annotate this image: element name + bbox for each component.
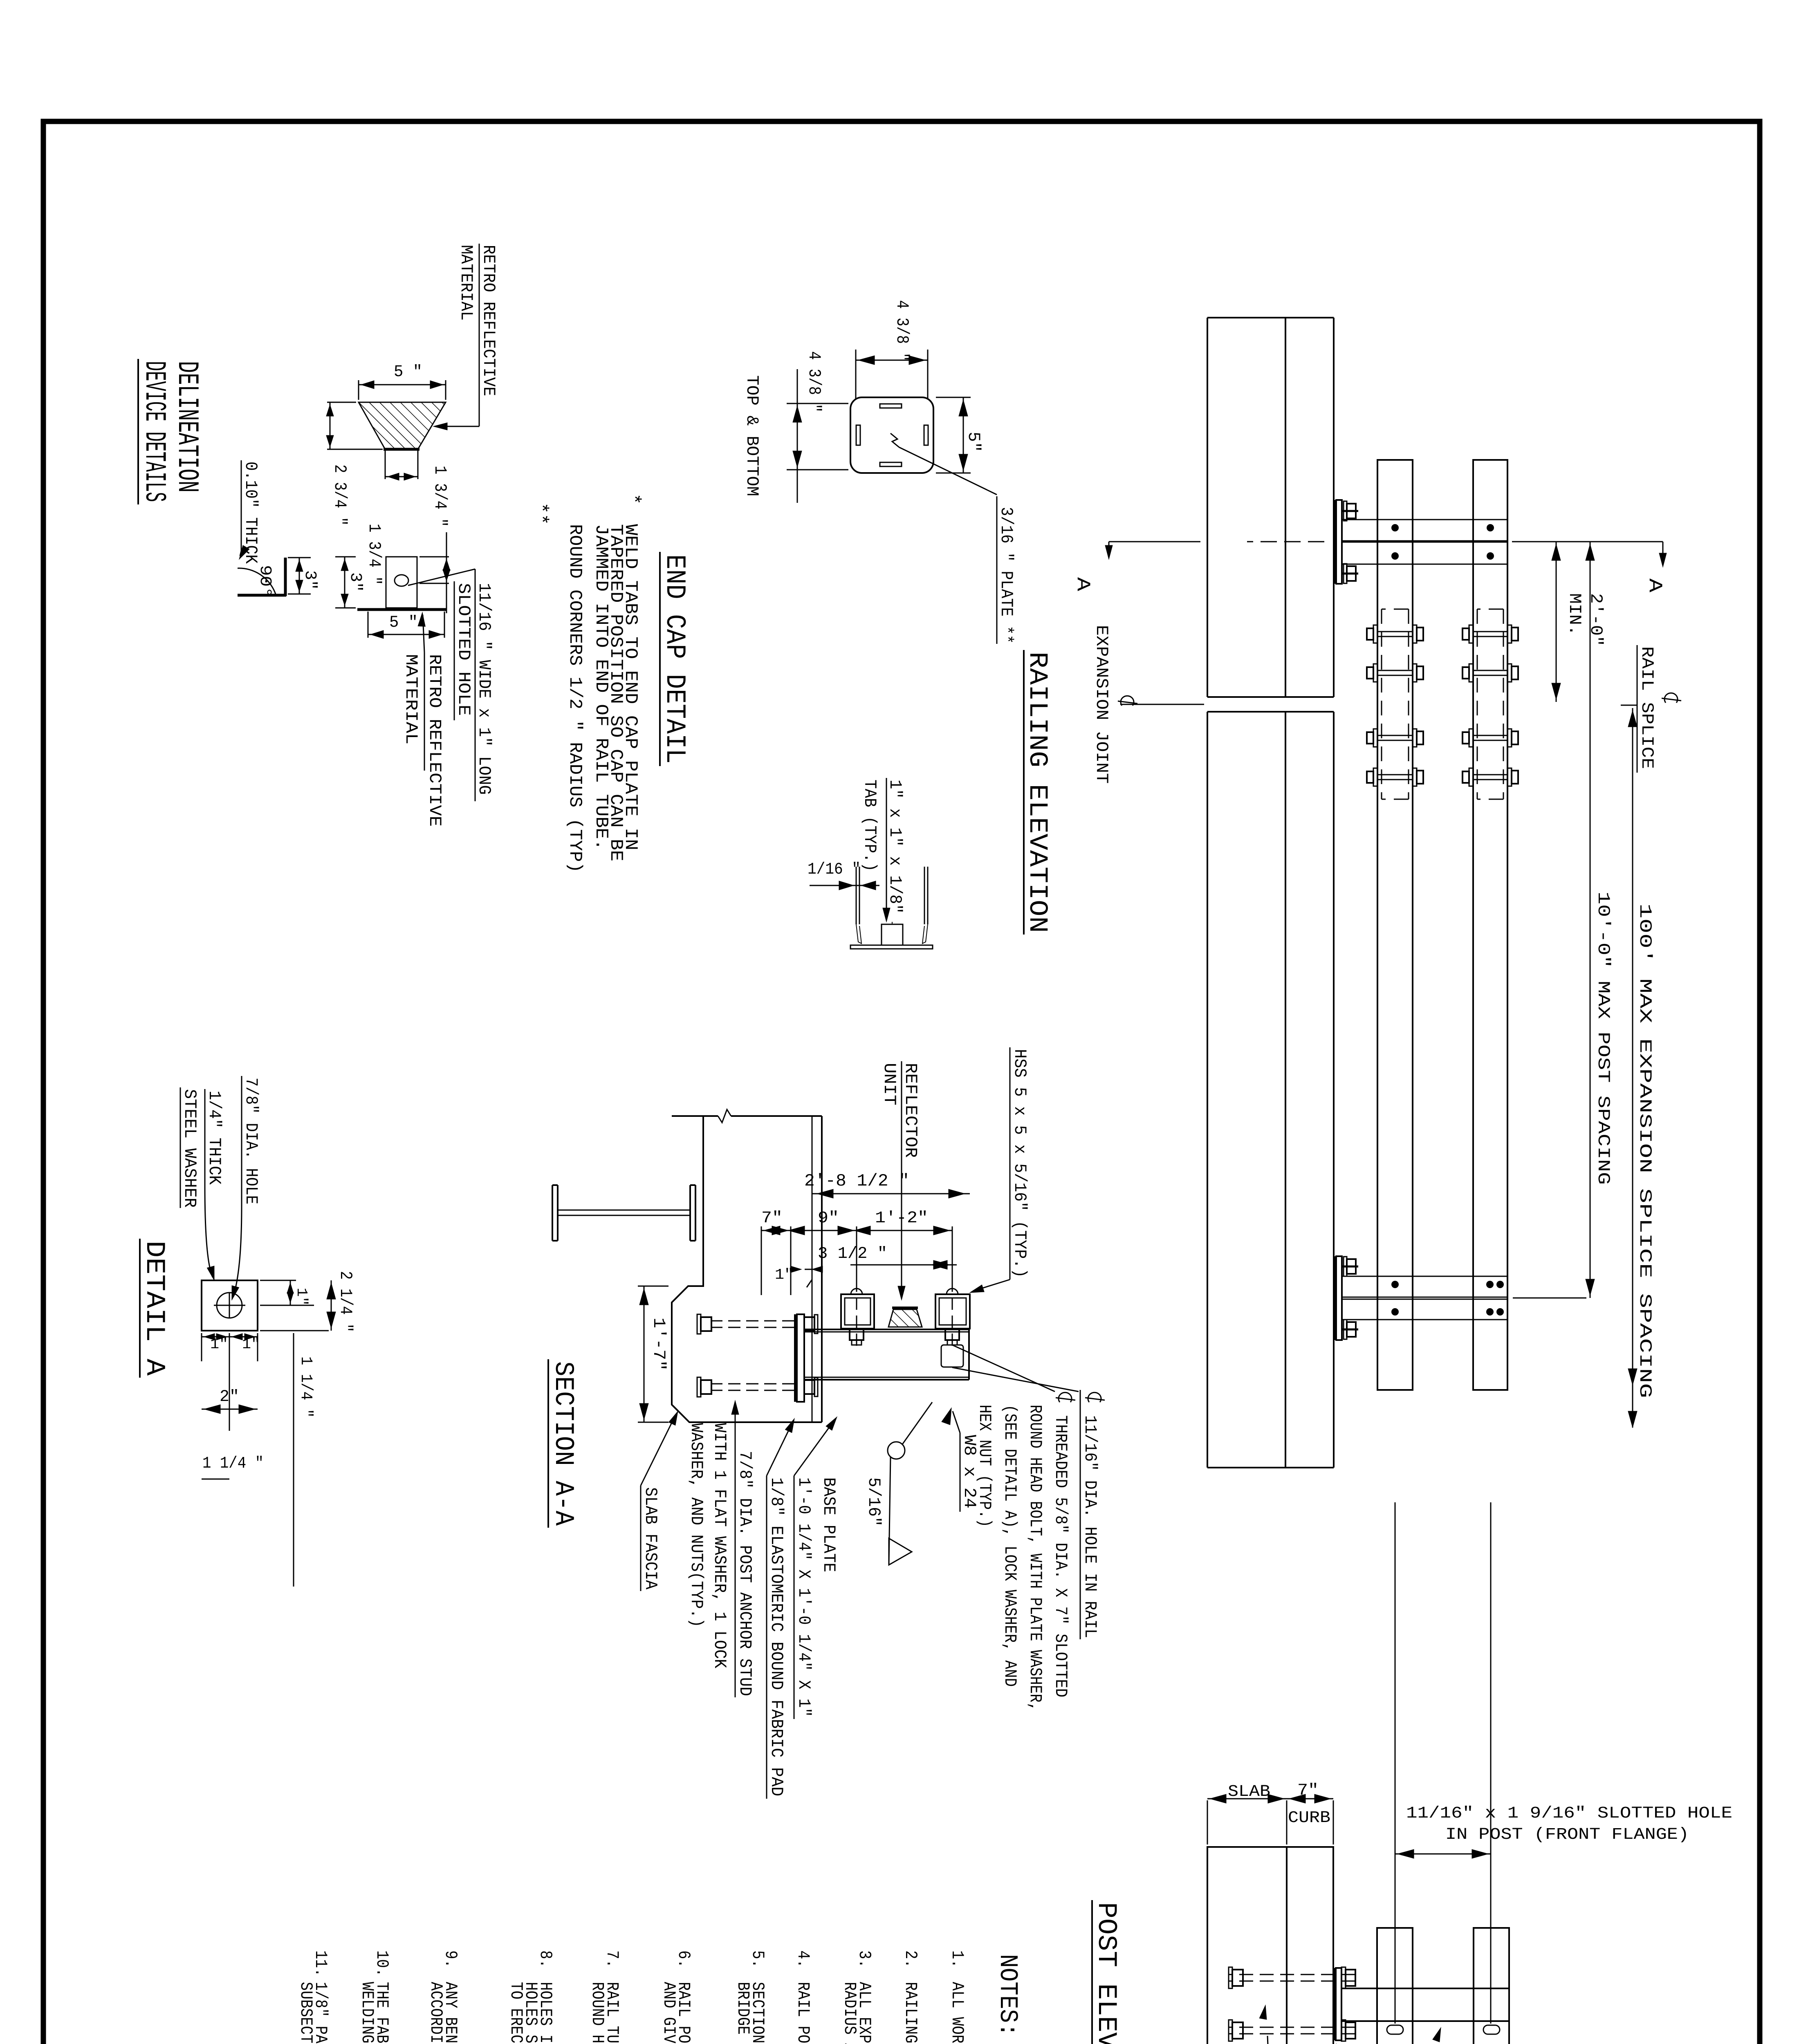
- svg-text:SLAB FASCIA: SLAB FASCIA: [641, 1487, 660, 1590]
- tab detail rail tube walls: [856, 867, 928, 944]
- svg-text:9": 9": [818, 1209, 839, 1228]
- svg-text:3": 3": [301, 570, 319, 590]
- svg-text:AND GIVEN AN ADDITIONAL ONE-EI: AND GIVEN AN ADDITIONAL ONE-EIGHTH TURN.: [659, 1982, 679, 2044]
- svg-text:END CAP DETAIL: END CAP DETAIL: [659, 554, 690, 764]
- svg-text:SLAB: SLAB: [1228, 1783, 1270, 1801]
- svg-text:7": 7": [1297, 1782, 1319, 1800]
- svg-text:1 3/4 ": 1 3/4 ": [430, 466, 450, 527]
- svg-text:1": 1": [210, 1336, 228, 1353]
- svg-text:UNIT: UNIT: [879, 1063, 899, 1105]
- post P2 base plate: [1335, 1256, 1342, 1340]
- svg-text:MATERIAL: MATERIAL: [401, 654, 421, 744]
- dimension 1'-7" fascia: [638, 1286, 668, 1422]
- svg-text:IN POST (FRONT FLANGE): IN POST (FRONT FLANGE): [1445, 1826, 1689, 1844]
- field weld symbol 5/16: [864, 1402, 932, 1565]
- delineator 5 inch dim: [359, 363, 446, 400]
- svg-text:2'-8 1/2 ": 2'-8 1/2 ": [804, 1171, 909, 1191]
- delineation sheet title: [137, 359, 204, 504]
- svg-text:90°: 90°: [256, 565, 274, 598]
- dimension 100' max expansion splice spacing: [1628, 708, 1655, 1428]
- end cap title: [659, 552, 690, 766]
- post P2: [1342, 1276, 1507, 1320]
- svg-text:THREADED 5/8" DIA. X 7" SLOTTE: THREADED 5/8" DIA. X 7" SLOTTED: [1051, 1415, 1070, 1697]
- notes title: [993, 1954, 1022, 2037]
- detail A dim 2-1/4 top: [260, 1271, 355, 1332]
- svg-text:7": 7": [761, 1209, 783, 1228]
- svg-text:ROUND HEAD BOLT, WITH PLATE WA: ROUND HEAD BOLT, WITH PLATE WASHER,: [1025, 1405, 1045, 1711]
- plan view 1-3/4 dim: [364, 524, 450, 613]
- section dimension 1 inch lip: [775, 1266, 823, 1287]
- dimension 2'-0" MIN: [1552, 542, 1606, 702]
- svg-text:WELDING PROCEDURES IN ACCORDAN: WELDING PROCEDURES IN ACCORDANCE WITH SE…: [357, 1982, 377, 2044]
- railing elevation title: [1022, 650, 1052, 935]
- post elevation post: [1341, 1988, 1509, 2021]
- svg-text:3.: 3.: [855, 1950, 874, 1968]
- svg-text:4 3/8 ": 4 3/8 ": [892, 300, 912, 361]
- dimension 10'-0" max post spacing: [1513, 542, 1613, 1298]
- svg-text:A: A: [1072, 577, 1093, 591]
- svg-text:HSS 5 x 5 x 5/16" (TYP.): HSS 5 x 5 x 5/16" (TYP.): [1010, 1049, 1030, 1278]
- svg-text:1": 1": [293, 1288, 310, 1306]
- svg-text:RAILING ELEVATION: RAILING ELEVATION: [1022, 652, 1052, 933]
- retro reflective material label 2: [401, 612, 444, 827]
- svg-text:BASE PLATE: BASE PLATE: [819, 1477, 839, 1572]
- section dimension 2-8 1/2 total: [804, 1171, 970, 1198]
- splice bolts upper rail: [1463, 625, 1518, 786]
- section cut line A-A: [1072, 542, 1667, 592]
- post elevation slab: [1207, 1847, 1333, 2044]
- svg-text:JAMMED INTO END OF RAIL TUBE.: JAMMED INTO END OF RAIL TUBE.: [591, 524, 611, 850]
- end cap dim 4-3/8 horizontal: [787, 351, 848, 503]
- svg-text:DETAIL A: DETAIL A: [139, 1241, 170, 1376]
- post P1: [1342, 520, 1507, 564]
- detail A dim 2 right: [202, 1388, 258, 1414]
- svg-text:4 3/8 ": 4 3/8 ": [804, 351, 824, 412]
- svg-text:10.: 10.: [372, 1950, 392, 1977]
- svg-text:*: *: [622, 493, 644, 505]
- svg-text:RAILING MATERIAL SHALL MEET TH: RAILING MATERIAL SHALL MEET THE REQUIREM…: [901, 1982, 920, 2044]
- svg-text:7.: 7.: [602, 1950, 622, 1968]
- rail tube lower: [1377, 460, 1413, 1390]
- svg-text:TAB (TYP.) *: TAB (TYP.) *: [860, 780, 879, 890]
- svg-text:MATERIAL: MATERIAL: [456, 245, 476, 320]
- plan view 3 inch dim: [335, 557, 364, 608]
- svg-text:1'-7": 1'-7": [649, 1318, 668, 1371]
- detail A dim 1 top: [260, 1280, 314, 1306]
- post P1 anchor bolts: [1342, 501, 1358, 583]
- svg-text:3 1/2 ": 3 1/2 ": [818, 1245, 887, 1263]
- svg-text:SUBSECTION 731.01 OR 731.02.: SUBSECTION 731.01 OR 731.02.: [296, 1982, 316, 2044]
- delineator plan view: [357, 557, 447, 610]
- svg-text:8.: 8.: [536, 1950, 555, 1968]
- delineator 1-3/4 dim: [385, 449, 450, 527]
- svg-text:5/16": 5/16": [864, 1477, 884, 1526]
- post elevation rails: [1377, 1928, 1509, 2044]
- section A-A title: [548, 1359, 579, 1528]
- tab detail 1/16 dim: [808, 861, 879, 890]
- svg-text:RADIUS AND BE FREE OF BURRS.: RADIUS AND BE FREE OF BURRS.: [840, 1982, 859, 2044]
- svg-text:ACCORDING TO A PROCEDURE PROVI: ACCORDING TO A PROCEDURE PROVIDED BY THE…: [426, 1982, 446, 2044]
- post elevation slotted holes: [1387, 2025, 1500, 2044]
- svg-text:5 ": 5 ": [394, 363, 422, 381]
- rail splice sleeve lower (dashed): [1382, 609, 1409, 799]
- svg-text:RAIL POSTS SHALL BE SET NORMAL: RAIL POSTS SHALL BE SET NORMAL TO GRADE.: [793, 1982, 813, 2044]
- section reflector unit: [888, 1308, 922, 1327]
- section plate washer upper bolt: [941, 1345, 963, 1367]
- retro reflective material label 1: [433, 244, 498, 430]
- svg-text:11/16" x 1 9/16" SLOTTED HOLE: 11/16" x 1 9/16" SLOTTED HOLE: [1406, 1804, 1732, 1823]
- bolt hole labels section: [952, 1345, 1105, 1711]
- railing elevation slab section 1: [1207, 318, 1334, 697]
- post P2 anchor bolts: [1342, 1257, 1358, 1339]
- post P1 base plate: [1335, 500, 1342, 584]
- base plate label section: [794, 1417, 839, 1719]
- svg-text:RETRO REFLECTIVE: RETRO REFLECTIVE: [425, 654, 444, 827]
- slotted hole label: [1406, 1804, 1732, 1844]
- section base plate and pad: [795, 1314, 804, 1402]
- svg-text:**: **: [530, 502, 551, 525]
- svg-text:2'-0": 2'-0": [1586, 593, 1606, 646]
- post elevation labels right: [1244, 2005, 1521, 2044]
- svg-text:1/4" THICK: 1/4" THICK: [204, 1091, 224, 1185]
- svg-text:5": 5": [964, 432, 983, 452]
- svg-text:TO ERECTION.: TO ERECTION.: [506, 1982, 526, 2044]
- section anchor studs: [697, 1314, 794, 1397]
- svg-text:DEVICE DETAILS: DEVICE DETAILS: [137, 361, 171, 502]
- svg-text:WITH 1 FLAT WASHER, 1 LOCK: WITH 1 FLAT WASHER, 1 LOCK: [710, 1423, 729, 1669]
- post P2 rail bolts: [1391, 1281, 1504, 1316]
- section deck slab: [672, 1109, 822, 1422]
- svg-text:1/8" ELASTOMERIC BOUND FABRIC: 1/8" ELASTOMERIC BOUND FABRIC PAD: [767, 1477, 786, 1796]
- svg-text:4.: 4.: [793, 1950, 813, 1968]
- svg-text:1/16 ": 1/16 ": [808, 861, 861, 879]
- section post W8x24: [804, 1329, 969, 1380]
- section I-beam girder: [552, 1185, 695, 1241]
- svg-text:5.: 5.: [748, 1950, 767, 1968]
- svg-text:1 1/4 ": 1 1/4 ": [296, 1356, 315, 1418]
- section rail bolts: [850, 1280, 959, 1346]
- anchor stud label section: [686, 1401, 755, 1697]
- svg-text:5 ": 5 ": [389, 614, 418, 632]
- section dimension 3 1/2: [818, 1245, 957, 1269]
- svg-text:REFLECTOR: REFLECTOR: [901, 1063, 920, 1158]
- end cap dim 4-3/8 vertical: [856, 300, 928, 399]
- svg-text:2 3/4 ": 2 3/4 ": [330, 464, 350, 526]
- detail A washer: [202, 1280, 258, 1331]
- svg-text:RETRO REFLECTIVE: RETRO REFLECTIVE: [479, 245, 498, 396]
- svg-text:10'-0" MAX POST SPACING: 10'-0" MAX POST SPACING: [1593, 892, 1613, 1185]
- svg-text:1 1/4 ": 1 1/4 ": [202, 1455, 264, 1473]
- svg-text:2": 2": [220, 1388, 239, 1406]
- svg-text:2.: 2.: [901, 1950, 920, 1968]
- notes list: [296, 1950, 967, 2044]
- svg-text:STEEL WASHER: STEEL WASHER: [180, 1089, 200, 1208]
- svg-text:1'-0 1/4" X 1'-0 1/4" X 1": 1'-0 1/4" X 1'-0 1/4" X 1": [794, 1477, 814, 1717]
- end cap notes: [530, 493, 644, 873]
- svg-text:(SEE DETAIL A), LOCK WASHER, A: (SEE DETAIL A), LOCK WASHER, AND: [1000, 1405, 1020, 1687]
- svg-text:2 1/4 ": 2 1/4 ": [336, 1271, 355, 1332]
- post elevation title: [1091, 1900, 1122, 2044]
- tab label: [860, 778, 905, 922]
- side view 3 inch dim: [288, 558, 319, 594]
- svg-text:ROUND HEAD BOLTS INSERTED THRO: ROUND HEAD BOLTS INSERTED THROUGH THE FA…: [588, 1982, 607, 2044]
- plan view 5 inch dim: [368, 612, 444, 639]
- svg-text:SLOTTED HOLE: SLOTTED HOLE: [454, 583, 473, 716]
- delineator front view trapezoid: [359, 402, 446, 449]
- svg-text:11/16 " WIDE x 1" LONG: 11/16 " WIDE x 1" LONG: [474, 583, 494, 795]
- rail tube upper: [1473, 460, 1507, 1390]
- svg-text:1.: 1.: [947, 1950, 967, 1968]
- svg-text:RAIL SPLICE: RAIL SPLICE: [1637, 646, 1657, 769]
- post elevation anchor studs: [1229, 1967, 1355, 2041]
- svg-text:1": 1": [242, 1336, 260, 1353]
- reflector unit label: [879, 1061, 920, 1300]
- splice bolts lower rail: [1367, 625, 1423, 786]
- railing elevation slab section 2: [1207, 712, 1334, 1468]
- svg-text:DELINEATION: DELINEATION: [170, 361, 204, 493]
- svg-text:100' MAX EXPANSION SPLICE SPA: 100' MAX EXPANSION SPLICE SPACING: [1635, 903, 1655, 1398]
- rail splice sleeve upper (dashed): [1477, 609, 1503, 799]
- section rail tubes: [841, 1294, 970, 1329]
- slab fascia label: [641, 1411, 678, 1591]
- slotted hole label delineator: [408, 569, 494, 801]
- expansion joint leader and label: [1092, 625, 1204, 784]
- detail A dim 1 1 right: [202, 1333, 260, 1431]
- svg-text:9.: 9.: [441, 1950, 460, 1968]
- hss label section: [970, 1047, 1030, 1293]
- svg-text:1": 1": [775, 1266, 794, 1283]
- end cap leader squiggle: [891, 433, 997, 495]
- svg-text:ROUND CORNERS 1/2 " RADIUS (TY: ROUND CORNERS 1/2 " RADIUS (TYP): [565, 524, 585, 873]
- svg-text:ALL WORK AND MATERIALS SHALL C: ALL WORK AND MATERIALS SHALL CONFORM TO …: [947, 1982, 967, 2044]
- section fascia block: [672, 1185, 822, 1422]
- end cap plate face: [850, 397, 933, 473]
- svg-text:7/8" DIA. POST ANCHOR STUD: 7/8" DIA. POST ANCHOR STUD: [735, 1451, 755, 1696]
- section chain dimension 7 9 1-2: [761, 1209, 952, 1295]
- delineator side view L: [238, 558, 286, 598]
- svg-text:EXPANSION JOINT: EXPANSION JOINT: [1092, 625, 1111, 784]
- delineator 2-3/4 dim: [326, 402, 383, 526]
- slab curb dimension: [1207, 1782, 1333, 1845]
- slotted hole dimension: [1395, 1502, 1491, 2024]
- svg-text:3/16 " PLATE **: 3/16 " PLATE **: [996, 507, 1016, 644]
- elastomeric pad label section: [767, 1419, 794, 1799]
- svg-text:W8 x 24: W8 x 24: [960, 1435, 979, 1508]
- post P1 rail bolts: [1391, 524, 1494, 560]
- W8x24 label: [942, 1408, 979, 1512]
- svg-text:3": 3": [346, 572, 364, 592]
- svg-text:TOP & BOTTOM: TOP & BOTTOM: [742, 375, 762, 496]
- post elevation base plate: [1335, 1968, 1341, 2040]
- end cap dim 5 inch top: [936, 397, 983, 473]
- svg-text:1" x 1" x 1/8": 1" x 1" x 1/8": [885, 780, 905, 914]
- detail A dim 1-1/4: [202, 1333, 315, 1587]
- tab detail tab: [882, 922, 903, 945]
- svg-text:11/16" DIA. HOLE IN RAIL: 11/16" DIA. HOLE IN RAIL: [1080, 1415, 1100, 1638]
- svg-text:A: A: [1644, 578, 1665, 592]
- detail A hole label: [232, 1076, 261, 1300]
- svg-text:11.: 11.: [311, 1950, 330, 1977]
- svg-text:MIN.: MIN.: [1565, 593, 1584, 636]
- section anchor stud nuts: [804, 1315, 818, 1396]
- svg-text:CURB: CURB: [1288, 1809, 1330, 1827]
- svg-text:WASHER, AND NUTS(TYP.): WASHER, AND NUTS(TYP.): [686, 1423, 706, 1627]
- end cap plate label 3/16: [996, 496, 1016, 644]
- detail A title: [139, 1239, 170, 1378]
- detail A washer label: [180, 1087, 224, 1280]
- svg-text:7/8" DIA. HOLE: 7/8" DIA. HOLE: [241, 1078, 261, 1204]
- rail splice centerline label: [1621, 645, 1681, 773]
- svg-text:NOTES:: NOTES:: [993, 1954, 1022, 2037]
- tab detail cap plate edge: [850, 945, 933, 949]
- svg-text:POST ELEVATION: POST ELEVATION: [1091, 1902, 1122, 2044]
- top and bottom label: [742, 375, 762, 496]
- svg-text:SECTION A-A: SECTION A-A: [548, 1361, 579, 1526]
- svg-text:1 3/4 ": 1 3/4 ": [364, 524, 384, 585]
- 0.10 thick label: [239, 460, 260, 564]
- svg-text:6.: 6.: [674, 1950, 693, 1968]
- svg-text:BRIDGE RAIL POSTS AND PREFERAB: BRIDGE RAIL POSTS AND PREFERABLY TO AT L…: [733, 1982, 753, 2044]
